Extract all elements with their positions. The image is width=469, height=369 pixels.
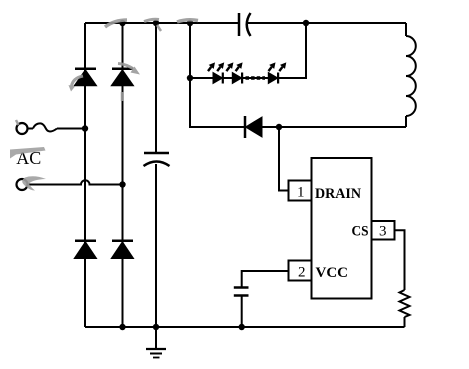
svg-text:2: 2 xyxy=(298,264,306,280)
svg-text:DRAIN: DRAIN xyxy=(315,186,361,202)
svg-text:3: 3 xyxy=(379,224,387,240)
svg-text:VCC: VCC xyxy=(316,265,349,281)
svg-text:CS: CS xyxy=(352,223,369,239)
svg-text:1: 1 xyxy=(297,185,305,201)
